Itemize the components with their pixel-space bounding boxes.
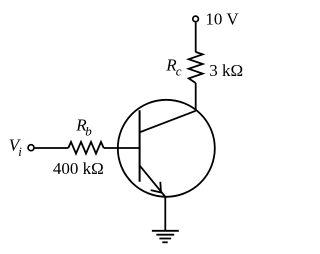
svg-text:3 kΩ: 3 kΩ (209, 61, 243, 80)
svg-text:10 V: 10 V (205, 9, 239, 28)
svg-text:b: b (85, 124, 92, 139)
svg-text:i: i (18, 144, 22, 159)
svg-text:c: c (176, 64, 182, 79)
svg-text:400 kΩ: 400 kΩ (53, 159, 104, 178)
